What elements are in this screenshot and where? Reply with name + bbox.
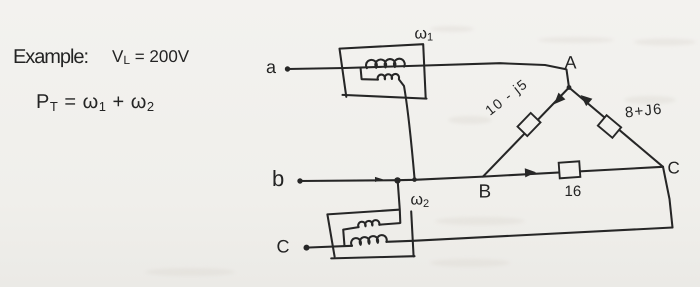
W2 voltage coil tap xyxy=(343,227,358,246)
svg-text:b: b xyxy=(272,166,284,191)
svg-text:A: A xyxy=(565,53,577,73)
W2 voltage coil lead xyxy=(379,223,400,225)
wire W1 voltage coil to b xyxy=(399,80,415,179)
node junction b big dot xyxy=(394,177,400,183)
wattmeter W1 box xyxy=(340,44,426,98)
impedance Z3 box 16 xyxy=(559,161,581,178)
terminal b dot xyxy=(297,178,302,183)
svg-text:a: a xyxy=(266,57,277,77)
arrow on B-A side xyxy=(551,93,566,108)
arrow on b line xyxy=(375,177,383,182)
svg-text:Example:: Example: xyxy=(13,46,89,68)
wire delta side B-A xyxy=(483,88,569,177)
W2 current coil xyxy=(351,235,387,246)
wire phase c line into W2 xyxy=(309,246,352,248)
svg-text:B: B xyxy=(479,182,492,203)
wire delta side A-C xyxy=(569,88,663,167)
W2 voltage coil xyxy=(358,220,379,227)
wattmeter W2 box xyxy=(327,210,398,257)
wire phase a line xyxy=(288,63,567,69)
node A apex dot xyxy=(567,85,572,90)
node junction b small dot xyxy=(412,177,417,182)
W1 current coil xyxy=(366,59,405,69)
wire C vertex down xyxy=(663,167,673,228)
faint bleed-through smudges xyxy=(145,26,696,276)
wire A drop stroke xyxy=(567,70,570,88)
terminal c dot xyxy=(304,245,310,251)
wire phase b line xyxy=(300,177,483,181)
svg-text:16: 16 xyxy=(565,183,582,200)
wire phase c line out of W2 xyxy=(386,241,413,242)
W1 voltage coil tap xyxy=(361,68,378,79)
arrow on B-C side xyxy=(525,168,536,178)
svg-text:C: C xyxy=(668,159,680,178)
terminal a dot xyxy=(285,66,290,71)
W1 voltage coil xyxy=(378,74,399,80)
svg-text:C: C xyxy=(277,237,290,257)
impedance Z2 box 8+j6 xyxy=(598,115,621,138)
wire b junction down to W2 voltage coil xyxy=(398,181,401,223)
arrow on A-C side xyxy=(577,91,592,106)
wire delta side B-C xyxy=(483,167,663,177)
impedance Z1 box 10-j5 xyxy=(518,113,541,136)
wire return line to W2 xyxy=(413,228,673,241)
